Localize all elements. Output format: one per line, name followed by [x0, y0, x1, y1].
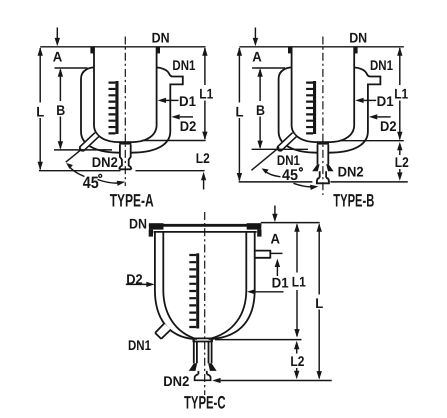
svg-text:L: L [36, 103, 44, 119]
level gauge strip [313, 81, 316, 134]
flange top band [149, 224, 261, 227]
dimension bottom line [239, 181, 408, 183]
outlet junction band [119, 141, 131, 144]
svg-text:DN1: DN1 [370, 57, 393, 73]
svg-text:L2: L2 [395, 154, 409, 170]
svg-text:L2: L2 [196, 150, 210, 166]
svg-text:TYPE-B: TYPE-B [333, 190, 374, 210]
dimension B extension bottom [252, 148, 308, 150]
centerline [124, 37, 126, 187]
dimension L line [39, 48, 41, 170]
level gauge strip [115, 81, 118, 134]
vessel inner wall right [209, 232, 247, 339]
outlet junction band [193, 338, 213, 341]
svg-text:D1: D1 [179, 93, 196, 109]
flange mark right [156, 47, 160, 54]
flange underside line [154, 231, 257, 233]
svg-text:D2: D2 [180, 118, 197, 134]
dimension D1 arrow [247, 289, 255, 294]
dimension D2 arrow [369, 114, 377, 119]
vessel outer wall right [212, 232, 255, 339]
jacket drain nozzle [80, 133, 99, 151]
outlet tube inner walls [197, 342, 209, 364]
dimension bottom line with arrow [212, 378, 220, 383]
dimension L1 line [296, 225, 298, 337]
svg-text:D1: D1 [272, 274, 289, 290]
dimension D1 arrow [355, 98, 363, 103]
dimension B extension top [252, 67, 285, 69]
label degree sign [299, 168, 302, 171]
dimension L1 line [204, 48, 206, 139]
outlet tube outer walls [194, 342, 212, 364]
svg-text:A: A [53, 48, 63, 64]
flange right lip [257, 230, 261, 237]
dimension L1 extension line [339, 140, 403, 142]
45 degree outlet arrow [294, 183, 315, 187]
dimension L line [318, 225, 320, 379]
flange mark left [288, 47, 292, 54]
svg-text:45: 45 [83, 174, 99, 192]
outlet lower tube with flange DN2 [320, 171, 326, 177]
outlet bell right wedge [208, 363, 216, 371]
svg-text:DN: DN [152, 30, 170, 46]
dimension L2 arrow [201, 172, 206, 180]
vessel inner wall left [163, 232, 197, 339]
dimension L1 extension line [215, 339, 302, 341]
flange left block [149, 223, 164, 229]
nozzle center extension line [271, 252, 283, 254]
dimension B extension top [55, 67, 88, 69]
jacket drain nozzle [277, 133, 296, 151]
jacket right wall with nozzle DN1 [329, 67, 381, 152]
svg-text:A: A [252, 48, 261, 64]
dimension L line [238, 48, 240, 181]
svg-text:DN1: DN1 [172, 57, 195, 73]
flange right block [247, 223, 262, 229]
nozzle DN1 [155, 323, 171, 339]
label degree sign [99, 174, 102, 177]
svg-text:A: A [271, 230, 281, 246]
dimension L2 arrows [397, 142, 402, 150]
vessel inner wall and dish [94, 47, 157, 142]
dimension L1 extension line [142, 140, 206, 142]
svg-text:TYPE-A: TYPE-A [110, 190, 154, 210]
dimension D1 arrow [158, 98, 166, 103]
vessel outer wall left [155, 232, 194, 339]
side nozzle A [255, 250, 271, 259]
outlet lower tube [198, 371, 206, 375]
svg-text:B: B [56, 102, 65, 118]
svg-text:L1: L1 [394, 85, 408, 101]
svg-text:DN2: DN2 [92, 154, 118, 170]
level gauge strip [196, 253, 199, 328]
dimension top line A [40, 46, 205, 48]
bottom outlet tube [318, 145, 329, 165]
svg-text:L: L [315, 295, 323, 311]
jacket right wall with nozzle DN1 [131, 67, 183, 152]
flange left lip [149, 230, 153, 237]
svg-text:L2: L2 [290, 353, 304, 369]
dimension B extension bottom [54, 149, 112, 151]
outlet bell right wedge [326, 164, 333, 171]
dimension B line [59, 70, 61, 149]
45 degree outlet arrow [98, 180, 122, 184]
dimension A up arrow [275, 259, 280, 267]
jacket left wall [279, 67, 318, 152]
dimension top line C [261, 222, 320, 224]
dimension B line [259, 70, 261, 148]
svg-text:D2: D2 [380, 118, 397, 134]
dimension bottom line [39, 170, 205, 172]
svg-text:TYPE-C: TYPE-C [184, 393, 226, 413]
svg-text:B: B [256, 102, 265, 118]
dimension A arrow [274, 206, 276, 215]
outlet junction band [317, 141, 329, 144]
svg-text:D1: D1 [377, 93, 394, 109]
45 degree arc arrow [69, 166, 85, 177]
centerline [204, 212, 206, 395]
45 degree reference line [66, 149, 82, 162]
svg-text:L: L [236, 103, 244, 119]
outlet bottom flange DN2 [195, 374, 211, 380]
outlet bell left wedge [189, 363, 197, 371]
dimension D2 arrow [171, 114, 179, 119]
centerline [322, 37, 324, 196]
jacket left wall [81, 67, 120, 152]
vessel inner wall and dish [292, 47, 355, 142]
svg-text:DN2: DN2 [163, 373, 189, 389]
dimension L2 arrows [294, 341, 299, 349]
svg-text:DN: DN [129, 215, 147, 231]
dimension A arrow [56, 28, 58, 39]
dimension top line B [239, 46, 403, 48]
svg-text:DN2: DN2 [338, 163, 364, 179]
svg-text:45: 45 [282, 167, 298, 184]
flange mark right [354, 47, 358, 54]
dimension A arrow [254, 28, 256, 39]
outlet bell left wedge [312, 164, 319, 171]
bottom outlet tube DN2 [119, 145, 131, 170]
svg-text:DN: DN [349, 30, 367, 46]
flange mark left [90, 47, 94, 54]
dimension L1 line [399, 48, 401, 139]
svg-text:L1: L1 [199, 85, 213, 101]
svg-text:DN1: DN1 [128, 337, 151, 353]
45 degree arc arrow [265, 171, 281, 177]
dimension D2 arrow [126, 283, 147, 285]
svg-text:DN1: DN1 [277, 152, 300, 168]
45 degree reference line [251, 147, 279, 170]
svg-text:L1: L1 [292, 273, 306, 289]
